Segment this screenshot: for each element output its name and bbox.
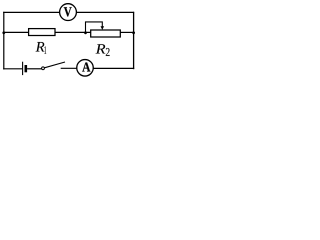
switch S bbox=[42, 62, 65, 70]
voltmeter U1 bbox=[60, 4, 77, 21]
wire right side bbox=[133, 12, 135, 69]
wire slider L-link bbox=[86, 22, 103, 33]
wire bottom left bbox=[3, 68, 22, 70]
wire ammeter to bottom right corner bbox=[94, 67, 135, 69]
node left junction bbox=[2, 31, 5, 34]
ammeter U2 bbox=[77, 60, 94, 77]
label R1 bbox=[36, 42, 47, 54]
wire left side bbox=[3, 12, 5, 70]
wire R1 to R2 bbox=[55, 31, 91, 33]
node right junction bbox=[132, 31, 135, 34]
node slider junction bbox=[84, 31, 87, 34]
wire R2 to right side bbox=[120, 31, 134, 33]
rheostat slider arrow bbox=[101, 26, 105, 30]
wire battery to switch bbox=[27, 68, 41, 70]
label R2 bbox=[96, 44, 110, 56]
rheostat R2 bbox=[91, 30, 121, 37]
resistor R1 bbox=[29, 29, 55, 36]
wire middle left bbox=[4, 31, 29, 33]
battery bbox=[23, 62, 26, 75]
wire top bbox=[3, 11, 134, 13]
wire switch to ammeter bbox=[61, 67, 77, 69]
